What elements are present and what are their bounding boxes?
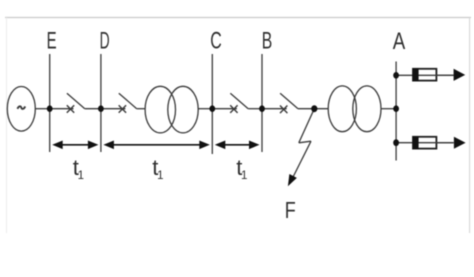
breaker 4 X contact <box>280 106 287 114</box>
dimension arrow D to C <box>103 141 209 150</box>
wire source to node E <box>35 108 49 110</box>
wire breaker 2 to transformer T1 <box>137 108 146 110</box>
generator AC tilde symbol <box>17 106 25 109</box>
breaker 1 X contact <box>67 105 74 113</box>
wire through fuse F2 <box>418 142 454 144</box>
busbar A vertical line <box>395 62 397 161</box>
transformer T2 secondary winding <box>353 86 381 132</box>
frame top border <box>5 17 471 19</box>
busbar A middle junction dot <box>393 105 399 112</box>
node D junction dot <box>98 105 104 112</box>
frame left border <box>6 18 8 234</box>
svg-text:C: C <box>210 27 222 54</box>
svg-text:B: B <box>262 27 273 54</box>
fault line segment 1 <box>299 109 315 143</box>
fuse F1 body <box>413 69 436 81</box>
feeder 1 arrowhead <box>454 69 466 81</box>
breaker 4 blade <box>280 93 298 109</box>
generator G source circle <box>7 87 35 132</box>
wire transformer T1 to node C <box>198 108 212 110</box>
wire breaker 4 to fault node <box>298 108 328 110</box>
feeder 2 arrowhead <box>454 137 466 149</box>
wire node C to breaker 3 <box>212 108 237 110</box>
fault node junction dot <box>311 105 317 112</box>
breaker 3 blade <box>230 93 248 109</box>
svg-text:E: E <box>47 27 57 54</box>
fuse F1 filled end <box>413 68 419 81</box>
node D busbar line <box>100 54 102 152</box>
wire transformer T2 to busbar A <box>381 108 396 110</box>
node E junction dot <box>47 105 53 112</box>
breaker 2 blade <box>119 93 137 109</box>
fault line segment 2 <box>299 141 311 143</box>
frame right border <box>469 18 471 234</box>
fault arrowhead <box>284 174 297 188</box>
fuse F2 filled end <box>413 136 419 149</box>
transformer T1 primary winding <box>145 86 175 133</box>
wire fuse F1 to feeder arrow <box>436 74 454 76</box>
wire node D to breaker 2 <box>101 108 126 110</box>
breaker 3 X contact <box>230 105 237 113</box>
wire node B to breaker 4 <box>262 108 287 110</box>
dimension arrow E to D <box>52 141 98 150</box>
svg-text:A: A <box>393 28 406 55</box>
breaker 2 X contact <box>119 105 126 113</box>
transformer T1 secondary winding <box>168 86 198 133</box>
node C busbar line <box>211 54 213 154</box>
node E busbar line <box>49 54 51 152</box>
wire busbar A to fuse F2 <box>396 142 414 144</box>
svg-text:F: F <box>285 197 296 223</box>
wire busbar A to fuse F1 <box>396 74 414 76</box>
wire breaker 3 to node B <box>248 108 262 110</box>
node C junction dot <box>209 105 215 112</box>
node B busbar line <box>261 54 263 152</box>
svg-text:D: D <box>100 27 110 54</box>
fault line segment 3 <box>291 141 311 181</box>
wire node E to breaker 1 <box>50 108 74 110</box>
busbar A top junction dot <box>393 72 399 79</box>
transformer T2 primary winding <box>328 86 356 132</box>
wire breaker 1 to node D <box>85 108 101 110</box>
wire fuse F2 to feeder arrow <box>436 142 454 144</box>
node B junction dot <box>259 105 265 112</box>
fuse F2 body <box>413 137 436 149</box>
busbar A bottom junction dot <box>393 139 399 146</box>
breaker 1 blade <box>67 93 85 109</box>
wire through fuse F1 <box>418 74 454 76</box>
dimension arrow C to B <box>215 141 260 150</box>
